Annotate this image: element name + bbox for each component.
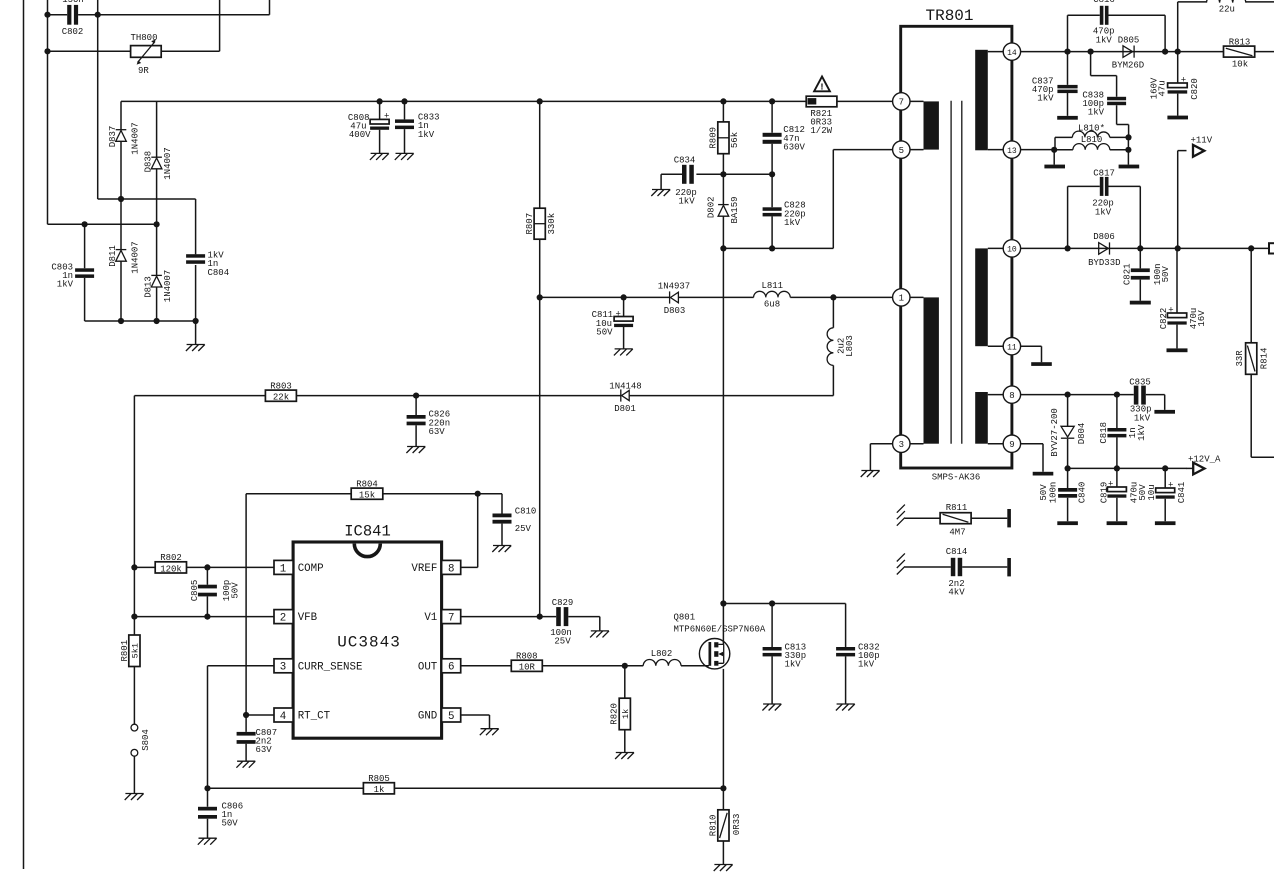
node junction pin4 C807: [243, 712, 249, 718]
pin 7 V1: [424, 610, 460, 625]
svg-text:+11V: +11V: [1191, 136, 1213, 146]
ground C820 bar: [1167, 116, 1188, 120]
pin 10 terminal: [1003, 240, 1020, 257]
resistor R813 10k: [1224, 38, 1255, 70]
node junction C805 top: [204, 564, 210, 570]
wire pin11 to ground: [1021, 346, 1042, 362]
pin 3 CURR_SENSE: [274, 659, 362, 674]
svg-text:S804: S804: [141, 729, 151, 751]
svg-text:+: +: [384, 112, 389, 122]
svg-text:C810: C810: [515, 507, 537, 517]
capacitor C821 100n 50V: [1122, 248, 1171, 300]
svg-text:56k: 56k: [730, 132, 740, 148]
resistor R820 1k: [609, 666, 630, 753]
svg-text:10R: 10R: [519, 663, 536, 673]
svg-text:22u: 22u: [1219, 5, 1235, 15]
diode D811 1N4007: [108, 199, 141, 321]
wire mains top-left vertical: [47, 0, 49, 224]
wire +12V_A rail: [1068, 467, 1187, 469]
svg-text:16V: 16V: [1197, 310, 1207, 327]
svg-text:3: 3: [899, 440, 904, 450]
pin 8 VREF: [411, 560, 460, 575]
node junction C816 right: [1162, 49, 1168, 55]
transformer TR801 SMPS-AK36: [901, 7, 1012, 483]
diode D813 1N4007: [143, 224, 173, 321]
ground C813: [762, 704, 781, 711]
svg-text:+12V_A: +12V_A: [1188, 455, 1221, 465]
wire rectifier top line y199: [98, 199, 196, 254]
svg-text:150n: 150n: [62, 0, 84, 5]
svg-text:330k: 330k: [547, 213, 557, 235]
node junction TH800 left: [44, 48, 50, 54]
ground C837 bar: [1057, 116, 1078, 120]
svg-text:11: 11: [1007, 343, 1017, 352]
capacitor C835 330p 1kV: [1129, 377, 1165, 423]
svg-text:1kV: 1kV: [57, 280, 74, 290]
inductor L810 lower: [1054, 135, 1128, 165]
resistor R803 22k: [265, 381, 296, 402]
wire R803-D801 line y395.6: [134, 395, 833, 397]
node junction C833 bus: [401, 98, 407, 104]
svg-text:D803: D803: [664, 306, 686, 316]
capacitor C802 150n: [62, 0, 84, 37]
wire pin14 output line: [1021, 51, 1274, 53]
svg-text:TR801: TR801: [925, 7, 973, 25]
wire pin4: [246, 714, 274, 716]
svg-text:CURR_SENSE: CURR_SENSE: [298, 661, 363, 673]
connector off-page right: [1269, 243, 1274, 253]
node junction VFB left: [131, 614, 137, 620]
svg-text:C804: C804: [208, 268, 230, 278]
node junction C828 top: [769, 171, 775, 177]
svg-text:R811: R811: [946, 503, 968, 513]
capacitor C819 470u 50V: [1099, 468, 1148, 521]
svg-text:4: 4: [280, 711, 286, 723]
svg-text:C819: C819: [1099, 482, 1109, 504]
svg-text:R808: R808: [516, 651, 538, 661]
svg-text:100n: 100n: [1048, 482, 1058, 504]
resistor R814 33R fusible: [1235, 248, 1274, 457]
ground rectifier: [186, 345, 205, 352]
ground C811: [614, 349, 633, 356]
svg-text:9R: 9R: [138, 66, 149, 76]
ground C806: [198, 838, 217, 845]
node junction R805 left: [204, 785, 210, 791]
node junction L810 upper right: [1125, 134, 1131, 140]
wire rectifier mid line y224: [48, 223, 157, 225]
node junction C813 top: [769, 600, 775, 606]
inductor L810* upper: [1055, 124, 1129, 150]
svg-text:25V: 25V: [554, 636, 571, 646]
node junction R814 top: [1248, 245, 1254, 251]
diode D806 BYD33D: [1088, 232, 1120, 268]
wire TH800 line: [48, 0, 220, 51]
wire pin8 to R804: [461, 494, 478, 568]
node junction D838-D813: [154, 221, 160, 227]
diode D801 1N4148: [609, 381, 641, 414]
node junction C804 bottom: [193, 318, 199, 324]
svg-text:1N4148: 1N4148: [609, 381, 641, 391]
ground L810 right bar: [1119, 165, 1140, 169]
capacitor C803 1n 1kV: [51, 224, 94, 321]
svg-text:4kV: 4kV: [948, 587, 965, 597]
svg-text:D806: D806: [1093, 232, 1115, 242]
svg-text:D811: D811: [108, 245, 118, 267]
wire VFB line: [134, 616, 274, 618]
ground R820: [615, 753, 634, 760]
wire pin8 line: [1021, 394, 1134, 396]
thermistor TH800 9R: [130, 33, 161, 76]
transistor Q801 MTP6N60E/SSP7N60A: [674, 613, 766, 669]
svg-text:50V: 50V: [222, 819, 239, 829]
svg-text:UC3843: UC3843: [337, 634, 401, 652]
capacitor C807 2n2 63V: [237, 715, 278, 761]
resistor R801 5k1: [120, 635, 141, 667]
node junction C826 top: [413, 393, 419, 399]
capacitor C812 47n 630V: [763, 101, 806, 174]
svg-text:+: +: [1181, 76, 1186, 86]
svg-text:1kV: 1kV: [1095, 207, 1112, 217]
capacitor C818 1n 1kV: [1099, 395, 1147, 469]
node junction D804 top: [1065, 392, 1071, 398]
capacitor C841 10u: [1147, 468, 1187, 521]
svg-text:L802: L802: [651, 649, 673, 659]
wire pin3 to ground: [870, 444, 892, 471]
svg-text:D813: D813: [143, 276, 153, 298]
svg-text:120k: 120k: [160, 564, 182, 574]
inductor L802: [643, 649, 709, 666]
pin 6 OUT: [418, 659, 461, 674]
wire L810 left ground stub: [1053, 150, 1055, 165]
svg-text:3: 3: [280, 662, 286, 674]
resistor R807 330k: [525, 101, 557, 616]
svg-text:Q801: Q801: [674, 613, 696, 623]
svg-text:D838: D838: [143, 151, 153, 173]
ground pin11 bar: [1031, 362, 1052, 366]
node junction D813 bottom: [154, 318, 160, 324]
wire x97 vertical: [97, 0, 99, 199]
svg-text:R807: R807: [525, 213, 535, 235]
node junction C840 top: [1065, 465, 1071, 471]
svg-text:25V: 25V: [515, 524, 532, 534]
svg-text:14: 14: [1007, 49, 1017, 58]
node junction C818 top: [1114, 392, 1120, 398]
node junction D837-D811: [118, 196, 124, 202]
winding primary 1-3: [910, 297, 939, 443]
winding secondary 8-9: [975, 392, 1003, 444]
svg-text:C814: C814: [946, 547, 968, 557]
svg-text:V1: V1: [424, 612, 437, 624]
svg-text:L810: L810: [1081, 135, 1103, 145]
pin 5 terminal: [893, 141, 910, 158]
ground C821 bar: [1130, 301, 1151, 305]
wire rectifier bottom line y321: [85, 321, 196, 345]
node junction VREF-R804: [475, 491, 481, 497]
svg-text:BYD33D: BYD33D: [1088, 258, 1120, 268]
ground pin3: [861, 471, 880, 478]
svg-text:1: 1: [899, 294, 904, 304]
node junction C802 left: [44, 12, 50, 18]
svg-text:C805: C805: [190, 580, 200, 602]
svg-text:63V: 63V: [429, 427, 446, 437]
svg-text:D837: D837: [108, 126, 118, 148]
resistor R805 1k: [208, 774, 724, 795]
switch S804: [131, 724, 151, 756]
svg-text:R809: R809: [709, 127, 719, 149]
inductor 22u top right: [1178, 0, 1274, 52]
resistor R811 4M7: [897, 503, 1011, 537]
svg-text:13: 13: [1007, 147, 1017, 156]
node junction C808 bus: [377, 98, 383, 104]
node junction +11V tap: [1175, 245, 1181, 251]
wire left border: [23, 0, 25, 869]
svg-text:10k: 10k: [1232, 60, 1248, 70]
capacitor C806 1n 50V: [198, 788, 243, 838]
op-amp controller IC841 UC3843 body: [293, 523, 442, 739]
capacitor C822 470u 16V: [1159, 248, 1207, 348]
node junction D802 top: [720, 171, 726, 177]
node junction C803 top: [82, 221, 88, 227]
svg-text:TH800: TH800: [130, 33, 157, 43]
winding primary 7-5: [910, 101, 939, 149]
svg-text:9: 9: [1009, 440, 1014, 450]
ground IC GND: [480, 729, 499, 736]
svg-text:L810*: L810*: [1078, 124, 1105, 134]
node junction C819 top: [1114, 465, 1120, 471]
svg-text:5k1: 5k1: [130, 643, 140, 658]
resistor R804 15k: [246, 479, 502, 715]
svg-text:D805: D805: [1118, 35, 1140, 45]
wire pin7 V1 line: [461, 616, 557, 618]
warning triangle: [814, 77, 830, 93]
svg-text:BYM26D: BYM26D: [1112, 61, 1144, 71]
svg-text:R813: R813: [1229, 38, 1251, 48]
wire pin3 to R805 line: [208, 666, 275, 789]
wire feedback line y297: [540, 296, 893, 298]
capacitor C817 220p 1kV loop: [1068, 168, 1141, 248]
svg-text:10u: 10u: [1147, 484, 1157, 500]
ground C826: [406, 447, 425, 454]
node junction C820 top: [1175, 49, 1181, 55]
node junction C812 bus: [769, 98, 775, 104]
wire main HV bus: [121, 100, 893, 102]
wire pin13 line: [1021, 149, 1055, 151]
svg-text:1kV: 1kV: [1037, 94, 1054, 104]
resistor R821 0R33 1/2W fusible: [806, 96, 837, 136]
svg-text:1kV: 1kV: [858, 660, 875, 670]
resistor R810 0R33 fusible: [708, 788, 742, 864]
svg-text:10: 10: [1007, 246, 1017, 255]
capacitor C804 1n 1kV: [186, 251, 229, 322]
svg-text:L811: L811: [761, 281, 783, 291]
svg-text:5: 5: [899, 146, 904, 156]
ground C832: [836, 704, 855, 711]
ground C807: [236, 761, 255, 768]
ground C829: [590, 631, 609, 638]
svg-text:C834: C834: [674, 155, 696, 165]
svg-text:1kV: 1kV: [1137, 424, 1147, 441]
svg-text:C840: C840: [1077, 482, 1087, 504]
svg-text:R801: R801: [120, 640, 130, 662]
ground C840 bar: [1057, 521, 1078, 525]
node junction D802 bottom: [720, 245, 726, 251]
svg-text:15k: 15k: [359, 491, 375, 501]
ground pin9 bar: [1033, 472, 1054, 476]
svg-text:R810: R810: [708, 815, 718, 837]
svg-text:GND: GND: [418, 711, 437, 723]
diode D802 BA159: [707, 174, 741, 248]
svg-text:C816: C816: [1093, 0, 1115, 5]
svg-text:C841: C841: [1177, 482, 1187, 504]
svg-text:C822: C822: [1159, 308, 1169, 330]
node junction R807 feedback: [537, 294, 543, 300]
node junction L810 left: [1051, 147, 1057, 153]
svg-text:R814: R814: [1260, 348, 1270, 370]
pin 8 terminal: [1003, 386, 1020, 403]
pin 4 RT_CT: [274, 708, 331, 723]
capacitor C834 220p 1kV: [674, 155, 697, 206]
node junction L803 top: [830, 294, 836, 300]
svg-text:!: !: [819, 82, 825, 93]
svg-text:1kV: 1kV: [1134, 413, 1151, 423]
wire R801 to switch: [133, 667, 135, 725]
capacitor C811 10u 50V: [592, 297, 634, 349]
wire source to R805 line: [722, 669, 724, 788]
svg-text:R804: R804: [356, 479, 378, 489]
svg-text:1kV: 1kV: [418, 130, 435, 140]
capacitor C828 220p 1kV: [763, 174, 806, 248]
svg-text:C817: C817: [1093, 168, 1115, 178]
node junction C805 bottom: [204, 614, 210, 620]
svg-text:1kV: 1kV: [1088, 108, 1105, 118]
ground C841 bar: [1155, 521, 1176, 525]
node junction V1-R807: [537, 614, 543, 620]
wire snubber branch y603.5: [723, 604, 845, 648]
svg-text:L803: L803: [845, 335, 855, 357]
wire +11V tap: [1177, 151, 1179, 249]
pin 5 GND: [418, 708, 461, 723]
node junction L810 lower right: [1125, 147, 1131, 153]
node junction C841 top: [1162, 465, 1168, 471]
ground R810: [714, 865, 733, 872]
svg-text:COMP: COMP: [298, 563, 324, 575]
pin 2 VFB: [274, 610, 318, 625]
svg-text:22k: 22k: [273, 393, 289, 403]
wire pin5 GND: [461, 715, 490, 729]
ground C808: [370, 153, 389, 160]
capacitor C833 1n 1kV: [395, 101, 440, 153]
pin 11 terminal: [1003, 338, 1020, 355]
node junction C817 left: [1065, 245, 1071, 251]
node junction D811 bottom: [118, 318, 124, 324]
svg-text:1kV: 1kV: [1096, 35, 1113, 45]
ground C819 bar: [1107, 521, 1128, 525]
svg-text:C820: C820: [1190, 78, 1200, 100]
node junction C821 top: [1137, 245, 1143, 251]
node junction source-R805-R810: [720, 785, 726, 791]
svg-text:50V: 50V: [596, 328, 613, 338]
svg-text:1N4007: 1N4007: [163, 147, 173, 179]
svg-text:50V: 50V: [1161, 266, 1171, 283]
svg-text:R805: R805: [368, 774, 390, 784]
ground C834: [651, 190, 670, 197]
svg-text:1k: 1k: [374, 785, 385, 795]
wire drain column: [722, 248, 724, 644]
svg-text:C821: C821: [1122, 263, 1132, 285]
capacitor C838 100p 1kV: [1082, 52, 1128, 138]
winding secondary 14-13: [975, 50, 1003, 151]
capacitor C805 100p 50V: [190, 567, 241, 616]
svg-text:C802: C802: [62, 27, 84, 37]
svg-text:6: 6: [448, 662, 454, 674]
capacitor C829 100n 25V: [550, 598, 600, 647]
svg-text:1: 1: [280, 563, 286, 575]
ground C835 bar: [1154, 410, 1175, 414]
resistor R808 10R: [461, 651, 644, 672]
svg-text:R803: R803: [270, 381, 292, 391]
svg-text:SMPS-AK36: SMPS-AK36: [932, 473, 981, 483]
svg-text:5: 5: [448, 711, 454, 723]
svg-text:47u: 47u: [1158, 80, 1168, 96]
ground C822 bar: [1167, 348, 1188, 352]
svg-text:C818: C818: [1099, 422, 1109, 444]
capacitor C816 470p 1kV bypass loop: [1068, 0, 1166, 52]
diode D804 BYV27-200: [1050, 395, 1087, 469]
svg-text:R820: R820: [609, 703, 619, 725]
svg-text:1N4007: 1N4007: [131, 241, 141, 273]
svg-text:IC841: IC841: [344, 523, 391, 541]
svg-text:7: 7: [899, 98, 904, 108]
inductor L811 6u8: [754, 281, 791, 310]
capacitor C814 2n2 4kV: [897, 547, 1011, 598]
svg-text:1N4937: 1N4937: [658, 282, 690, 292]
resistor R809 56k: [709, 101, 741, 174]
node junction R807 bus: [537, 98, 543, 104]
wire pin9 to ground: [1021, 444, 1043, 472]
node junction C816 left: [1064, 49, 1070, 55]
svg-text:63V: 63V: [256, 745, 273, 755]
svg-text:1/2W: 1/2W: [810, 126, 832, 136]
svg-text:400V: 400V: [349, 130, 371, 140]
node junction R809 bus: [720, 98, 726, 104]
winding secondary 10-11: [975, 248, 1003, 346]
svg-text:1k: 1k: [621, 709, 631, 719]
wire snubber return y248 to pin5: [723, 150, 892, 249]
svg-text:C835: C835: [1129, 377, 1151, 387]
capacitor C840 100n 50V: [1039, 468, 1087, 521]
svg-text:1N4007: 1N4007: [163, 270, 173, 302]
svg-text:1kV: 1kV: [784, 218, 801, 228]
capacitor C826 220n 63V: [407, 396, 451, 447]
svg-text:VREF: VREF: [411, 563, 437, 575]
ground S804: [125, 794, 144, 801]
svg-text:D801: D801: [614, 404, 636, 414]
wire C802 line: [48, 0, 270, 15]
svg-text:4M7: 4M7: [949, 528, 965, 538]
pin 9 terminal: [1003, 435, 1020, 452]
svg-text:6u8: 6u8: [764, 300, 780, 310]
node junction C811 top: [621, 294, 627, 300]
transformer core: [951, 101, 962, 444]
svg-text:50V: 50V: [230, 582, 240, 599]
ground C810: [492, 546, 511, 553]
net flag +12V_A: [1186, 455, 1221, 475]
svg-text:7: 7: [448, 613, 454, 625]
svg-text:BYV27-200: BYV27-200: [1050, 408, 1060, 457]
wire x134 column: [133, 396, 135, 635]
node junction C802 right: [95, 12, 101, 18]
svg-text:8: 8: [1009, 391, 1014, 401]
